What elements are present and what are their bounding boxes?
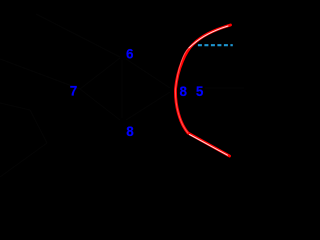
wire edge lower-left c (faint) <box>0 143 47 177</box>
svg-text:8: 8 <box>180 83 188 99</box>
wire edge 7-8 (faint) <box>80 89 120 120</box>
wire edge 7-6 (faint) <box>80 58 120 89</box>
wire edge 6-8b (faint) <box>126 59 170 88</box>
svg-text:8: 8 <box>126 123 134 139</box>
wire edge right horizontal (faint) <box>205 87 244 89</box>
svg-text:6: 6 <box>126 46 134 62</box>
wire edge lower-left b (faint) <box>30 110 47 143</box>
curve red spline outer stroke <box>175 25 230 156</box>
svg-text:7: 7 <box>70 83 78 99</box>
svg-text:5: 5 <box>196 83 204 99</box>
wire edge to node 7 from left (faint) <box>0 59 80 89</box>
curve red spline white core lower <box>190 135 228 156</box>
wire edge lower-left a (faint) <box>0 103 30 110</box>
curve red spline bulge core <box>175 48 188 133</box>
wire edge 8-8b (faint) <box>126 92 170 120</box>
wire edge to node 6 (faint) <box>36 14 120 57</box>
wire edge 6-8 vertical (faint) <box>121 60 123 118</box>
curve red spline white core <box>189 26 229 48</box>
dashed line (cyan) <box>198 44 233 46</box>
